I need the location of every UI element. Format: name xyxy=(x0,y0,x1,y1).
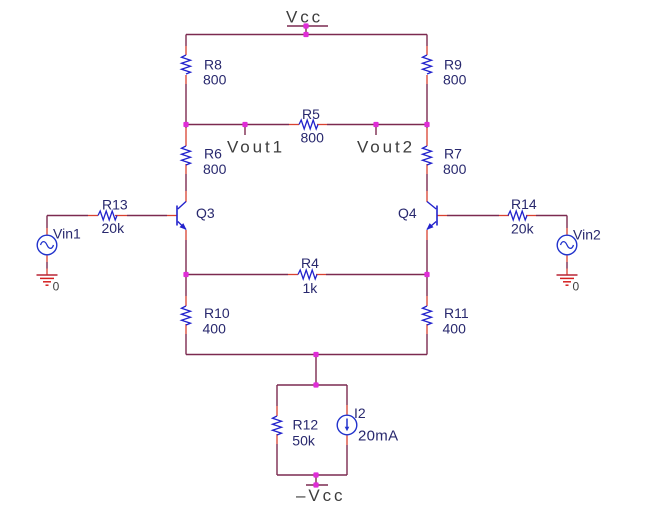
svg-text:R12: R12 xyxy=(293,416,319,432)
svg-text:Vout2: Vout2 xyxy=(357,138,415,157)
svg-text:400: 400 xyxy=(203,321,227,337)
svg-text:0: 0 xyxy=(53,279,60,293)
svg-text:20mA: 20mA xyxy=(358,428,398,445)
svg-text:800: 800 xyxy=(443,161,467,177)
svg-text:R8: R8 xyxy=(204,57,222,73)
svg-text:R10: R10 xyxy=(204,305,230,321)
svg-text:20k: 20k xyxy=(511,221,535,237)
svg-text:20k: 20k xyxy=(102,220,126,236)
svg-text:1k: 1k xyxy=(303,280,319,296)
svg-text:400: 400 xyxy=(443,321,467,337)
svg-text:800: 800 xyxy=(443,72,467,88)
svg-text:R5: R5 xyxy=(302,106,320,122)
svg-text:R6: R6 xyxy=(204,146,222,162)
svg-text:50k: 50k xyxy=(292,432,316,448)
svg-text:Q3: Q3 xyxy=(196,205,215,221)
svg-text:800: 800 xyxy=(301,130,325,146)
svg-text:0: 0 xyxy=(573,279,580,293)
svg-text:Vout1: Vout1 xyxy=(227,138,285,157)
svg-text:800: 800 xyxy=(203,161,227,177)
svg-text:Q4: Q4 xyxy=(398,205,417,221)
svg-text:R11: R11 xyxy=(444,305,469,321)
svg-text:–Vcc: –Vcc xyxy=(296,486,345,505)
svg-text:Vcc: Vcc xyxy=(286,8,323,27)
svg-text:I2: I2 xyxy=(354,405,366,421)
svg-text:R9: R9 xyxy=(444,57,462,73)
svg-text:R14: R14 xyxy=(511,196,537,212)
svg-text:Vin2: Vin2 xyxy=(573,227,601,243)
svg-text:R4: R4 xyxy=(301,255,319,271)
svg-text:800: 800 xyxy=(203,72,227,88)
svg-text:R7: R7 xyxy=(444,146,462,162)
svg-text:Vin1: Vin1 xyxy=(53,226,81,242)
svg-text:R13: R13 xyxy=(102,197,128,213)
